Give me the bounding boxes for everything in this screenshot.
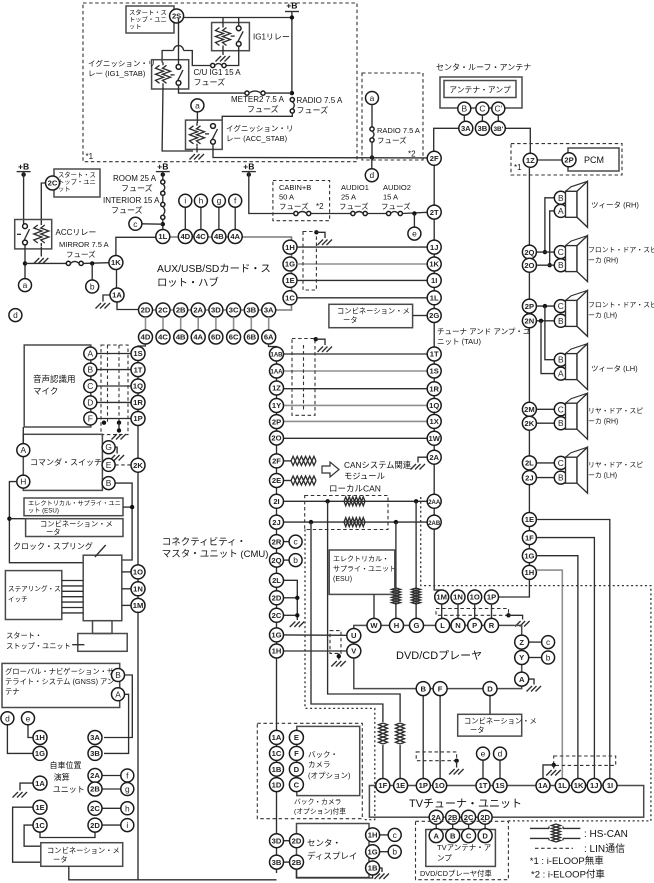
wire 2D-i — [102, 824, 121, 826]
hub bottom pin 3A — [262, 303, 276, 317]
svg-text:2P: 2P — [272, 417, 281, 426]
svg-text:1L: 1L — [158, 232, 167, 241]
svg-text:e: e — [412, 229, 417, 239]
speaker tweeter RH — [566, 181, 588, 227]
svg-text:アンテナ・アンプ: アンテナ・アンプ — [449, 86, 511, 95]
speaker pin B — [554, 314, 567, 327]
speaker rear door LH — [566, 447, 588, 493]
wire 2J to rear LH B — [536, 477, 554, 479]
mic pin A — [84, 347, 97, 360]
svg-text:CABIN+B: CABIN+B — [279, 183, 311, 192]
electrical supply unit ESU box (mid) — [329, 550, 395, 594]
svg-text:演算: 演算 — [54, 772, 70, 782]
svg-text:F: F — [88, 414, 93, 424]
svg-text:2F: 2F — [272, 457, 281, 466]
speaker pin C — [554, 300, 567, 313]
svg-text:1Q: 1Q — [133, 382, 143, 391]
junction — [454, 759, 458, 763]
wire IG1 coil to ground — [222, 49, 224, 56]
svg-text:ット: ット — [58, 186, 71, 193]
svg-text:3A: 3A — [90, 733, 100, 742]
camera harness pin 1B — [270, 762, 284, 776]
wire d to 1G — [7, 725, 33, 754]
svg-text:b: b — [546, 653, 551, 663]
antenna amp pin C' — [492, 102, 505, 115]
TAU right edge wire — [528, 167, 530, 579]
CMU pin 2E — [270, 474, 284, 488]
link node d (bottom) — [1, 712, 14, 725]
hub right pin 1E — [283, 273, 297, 287]
fuse AUDIO1 25 A — [351, 211, 368, 215]
ground right of DVD A — [527, 686, 542, 692]
svg-text:1B: 1B — [368, 864, 378, 873]
wire 2B to antenna amp — [452, 824, 454, 828]
svg-text:1P: 1P — [487, 593, 496, 602]
link node a (radio fuse) — [366, 92, 379, 105]
wire 3D-2D — [284, 840, 290, 842]
junction — [414, 499, 418, 503]
svg-text:C: C — [466, 831, 472, 840]
wire 2B-g — [102, 788, 121, 790]
hub top pin 4D — [178, 230, 192, 244]
TAU pin 1W — [427, 431, 441, 445]
svg-text:4B: 4B — [214, 232, 224, 241]
svg-text:マスタ・ユニット (CMU): マスタ・ユニット (CMU) — [162, 549, 269, 560]
junction — [370, 155, 374, 159]
wire 1Z-2P — [537, 159, 562, 161]
connector pin 4B (harness) — [174, 330, 188, 344]
svg-text:2A: 2A — [431, 813, 441, 822]
svg-text:ータ: ータ — [46, 528, 61, 537]
svg-text:1K: 1K — [111, 258, 121, 267]
mic pin F — [84, 412, 97, 425]
speaker pin B — [554, 353, 567, 366]
GNSS pin B — [112, 669, 125, 682]
DVD top pin H — [390, 618, 404, 632]
svg-text:2A: 2A — [193, 306, 203, 315]
svg-text:1G: 1G — [285, 260, 295, 269]
wire A up — [22, 427, 24, 444]
svg-text:2S: 2S — [172, 12, 181, 21]
svg-text:A: A — [21, 445, 27, 455]
svg-text:コマンダ・スイッチ: コマンダ・スイッチ — [30, 457, 102, 467]
svg-text:TVアンテナ・ア: TVアンテナ・ア — [437, 843, 491, 852]
junction — [90, 261, 94, 265]
svg-text:4A: 4A — [230, 232, 240, 241]
svg-text:d: d — [369, 170, 374, 180]
DVD pin B — [416, 682, 430, 696]
svg-text:ニット (TAU): ニット (TAU) — [437, 337, 482, 346]
svg-text:ータ: ータ — [470, 726, 485, 735]
display pin 1H — [366, 828, 380, 842]
svg-text:エレクトリカル・: エレクトリカル・ — [333, 555, 389, 563]
svg-text:*2: *2 — [316, 202, 324, 211]
dashed option box back camera — [257, 723, 362, 818]
svg-text:A: A — [433, 831, 439, 840]
TAU right pin 1H — [522, 565, 536, 579]
svg-text:フューズ: フューズ — [121, 183, 153, 193]
TV tuner pin 1P — [416, 779, 430, 793]
CMU pin 1G — [270, 628, 284, 642]
wire TAU 2A to ground — [418, 457, 427, 462]
svg-text:イグニッション・リ: イグニッション・リ — [226, 123, 293, 133]
legend LIN dashed — [535, 847, 573, 849]
wire G to ground — [115, 447, 117, 453]
TAU right pin 2L — [522, 456, 536, 470]
LIN dotted line (camera option) — [305, 530, 375, 820]
wire clock spring to 1M — [122, 604, 131, 606]
DVD pin Z — [515, 635, 529, 649]
svg-text:B: B — [558, 260, 564, 270]
svg-text:*1 : i-ELOOP無車: *1 : i-ELOOP無車 — [530, 855, 604, 867]
clock spring connector — [83, 555, 122, 621]
TV tuner pin 2C — [462, 810, 476, 824]
svg-text:ロット・ハブ: ロット・ハブ — [157, 276, 219, 289]
svg-text:1M: 1M — [133, 601, 144, 610]
wire shield to ground — [316, 339, 325, 345]
wire 2C to ACC relay coil — [41, 183, 45, 222]
svg-text:b: b — [90, 282, 95, 292]
wire 1C to meter box — [24, 825, 41, 846]
svg-text:1F: 1F — [525, 533, 534, 542]
wire CMU 1AA-1S to TAU — [284, 370, 428, 372]
commander pin B — [102, 477, 115, 490]
svg-text:4D: 4D — [141, 333, 151, 342]
connector pin 2P — [562, 153, 576, 167]
fuse ROOM 25 A — [161, 180, 165, 195]
svg-text:1A: 1A — [112, 291, 122, 300]
svg-text:コネクティビティ・: コネクティビティ・ — [162, 537, 246, 548]
wire tweeter RH A — [550, 211, 555, 265]
wire C'-3B' — [497, 115, 499, 121]
svg-text:2Q: 2Q — [524, 248, 534, 257]
wire g to hub — [218, 207, 220, 229]
junction — [543, 304, 547, 308]
svg-text:(オプション)付車: (オプション)付車 — [294, 807, 346, 816]
CMU pin 2K — [131, 458, 145, 472]
wire +B down — [162, 172, 164, 180]
wire 2M to rear RH C — [536, 408, 554, 410]
svg-text:フューズ: フューズ — [247, 104, 279, 114]
svg-text:B: B — [88, 365, 94, 375]
CMU pin 1R — [131, 395, 145, 409]
coil of ACC relay — [34, 222, 49, 246]
wire 2S to +B bus — [184, 17, 292, 19]
svg-text:レー (IG1_STAB): レー (IG1_STAB) — [88, 69, 146, 78]
wire 2O to front RH B — [536, 264, 554, 266]
wire mic F — [97, 418, 131, 420]
svg-text:1T: 1T — [134, 365, 143, 374]
svg-text:R: R — [489, 621, 495, 630]
ground right of hub shield — [318, 240, 333, 246]
svg-text:マイク: マイク — [33, 386, 58, 396]
camera harness pin 1C — [270, 746, 284, 760]
svg-text:2C: 2C — [90, 804, 100, 813]
svg-text:2T: 2T — [430, 208, 439, 217]
wire 6B mating stub — [250, 317, 252, 330]
svg-text:3B: 3B — [272, 858, 282, 867]
wire CMU 1H to DVD V — [284, 650, 347, 652]
speaker tweeter LH — [566, 344, 588, 390]
svg-text:自車位置: 自車位置 — [50, 760, 82, 770]
ground under LIN box — [449, 769, 464, 775]
dashed option box DVD/CD player fitted — [416, 821, 509, 879]
wire 1K to 1A — [116, 270, 118, 289]
wire to AUDIO2 fuse — [367, 213, 386, 215]
camera harness pin 1A — [270, 730, 284, 744]
svg-text:: LIN通信: : LIN通信 — [584, 843, 625, 855]
TV tuner unit box — [369, 786, 643, 818]
dashed shield box (mic wires) — [101, 345, 128, 435]
svg-text:ーカ (RH): ーカ (RH) — [588, 257, 618, 265]
svg-text:3A: 3A — [461, 124, 471, 133]
svg-text:2AA: 2AA — [428, 500, 441, 506]
svg-text:METER2 7.5 A: METER2 7.5 A — [231, 95, 285, 104]
fuse MIRROR 7.5 A — [66, 261, 83, 265]
svg-text:25 A: 25 A — [341, 193, 356, 202]
svg-text:2D: 2D — [272, 594, 282, 603]
link node g (top) — [212, 194, 225, 207]
svg-text:AUX/USB/SDカード・ス: AUX/USB/SDカード・ス — [157, 263, 271, 275]
start-stop unit box (left) — [54, 169, 100, 197]
svg-text:1W: 1W — [429, 434, 441, 443]
svg-text:d: d — [13, 310, 18, 320]
svg-text:サプライ・ユニット: サプライ・ユニット — [333, 565, 396, 573]
wire IG1_STAB switch up to bus — [178, 18, 180, 65]
connector pin 1A — [110, 288, 124, 302]
svg-text:2A: 2A — [90, 771, 100, 780]
wire 2Q-b — [284, 559, 290, 561]
svg-text:*2: *2 — [408, 150, 416, 159]
+B feed middle — [156, 162, 170, 177]
svg-text:2F: 2F — [430, 154, 439, 163]
svg-text:ACCリレー: ACCリレー — [56, 228, 97, 237]
svg-text:イッチ: イッチ — [8, 596, 28, 604]
svg-text:G: G — [414, 621, 420, 630]
wire 2K to rear RH B — [536, 422, 554, 424]
svg-text:フューズ: フューズ — [66, 249, 96, 259]
TAU right pin 1F — [522, 531, 536, 545]
fuse CABIN+B 50 A — [294, 211, 311, 215]
wire CMU 1Z-1R to TAU — [284, 388, 428, 390]
back camera pin E — [289, 730, 303, 744]
link node c — [129, 217, 142, 230]
svg-text:AUDIO1: AUDIO1 — [341, 183, 369, 192]
svg-text:3C: 3C — [229, 306, 239, 315]
connector pin 4C (harness) — [156, 330, 170, 344]
svg-text:H: H — [20, 477, 26, 487]
back camera box — [297, 726, 360, 795]
TAU right pin 1G — [522, 549, 536, 563]
TAU right pin 1E — [522, 513, 536, 527]
svg-text:RADIO 7.5 A: RADIO 7.5 A — [297, 96, 343, 105]
wire shield to ground — [316, 232, 325, 238]
svg-text:1A: 1A — [35, 779, 45, 788]
wire IG1_STAB coil down — [162, 86, 193, 151]
svg-text:6A: 6A — [264, 333, 274, 342]
TAU right pin 2P — [522, 299, 536, 313]
dashed option box *1 PCM — [511, 144, 622, 175]
position unit pin 1G — [33, 746, 47, 760]
link node c (CMU 2R) — [289, 535, 302, 548]
wire 2E to CAN termination — [284, 480, 292, 482]
svg-text:ストップ・ユニット: ストップ・ユニット — [6, 642, 71, 651]
DVD top pin R — [485, 618, 499, 632]
antenna amp unit box — [440, 77, 522, 108]
svg-text:1T: 1T — [479, 781, 488, 790]
wire node c to junction — [142, 223, 163, 225]
svg-text:W: W — [370, 621, 378, 630]
svg-text:L: L — [440, 621, 445, 630]
harness pin 3B — [270, 855, 284, 869]
+B feed right — [242, 162, 256, 177]
position unit pin 1C — [33, 818, 47, 832]
svg-text:A: A — [115, 689, 121, 699]
wire f to hub — [234, 207, 236, 229]
relay IG1_STAB (ignition relay) — [152, 60, 189, 89]
ground right of display 1B — [375, 874, 390, 880]
TAU pin 1I — [427, 273, 441, 287]
center display box — [297, 824, 370, 878]
TAU right pin 2Q — [522, 245, 536, 259]
fuse INTERIOR 15 A — [161, 202, 165, 219]
wire meter to bottom bus — [69, 866, 138, 880]
DVD pin F — [433, 682, 447, 696]
TAU bottom pin 1O — [468, 590, 482, 604]
svg-text:2P: 2P — [525, 302, 534, 311]
wire ESU to DVD W — [373, 594, 375, 618]
hub bottom pin 3D — [209, 303, 223, 317]
svg-text:P: P — [472, 621, 477, 630]
wire 4A mating stub — [197, 317, 199, 330]
svg-text:4C: 4C — [158, 333, 168, 342]
wire crossing hop — [174, 46, 184, 51]
ground left of hub 1A — [96, 303, 111, 309]
svg-text:C: C — [558, 247, 564, 257]
junction — [314, 337, 318, 341]
svg-text:1H: 1H — [35, 733, 45, 742]
commander switch box — [23, 434, 102, 490]
display pin 1G — [366, 845, 380, 859]
svg-text:1F: 1F — [378, 781, 387, 790]
wire mic D — [97, 401, 131, 403]
TAU right pin 2O — [522, 258, 536, 272]
wire clock spring to 1O — [122, 571, 131, 573]
wire C-3B — [481, 115, 483, 121]
TV tuner pin 1O — [433, 779, 447, 793]
svg-text:ツィータ (LH): ツィータ (LH) — [591, 364, 638, 373]
svg-text:2B: 2B — [90, 785, 100, 794]
dashed LIN box over 1M-1P — [436, 609, 509, 616]
svg-text:1E: 1E — [285, 276, 294, 285]
twisted pair to DVD (H) — [392, 588, 401, 604]
wire to AUDIO1 fuse — [311, 213, 351, 215]
svg-text:PCM: PCM — [584, 155, 604, 165]
junction — [290, 15, 294, 19]
wire CMU 2J to TAU 2AB — [284, 521, 428, 523]
svg-text:INTERIOR 15 A: INTERIOR 15 A — [103, 196, 160, 205]
svg-text:1G: 1G — [271, 631, 281, 640]
svg-text:b: b — [392, 847, 397, 857]
svg-text:2I: 2I — [273, 497, 279, 506]
commander pin E — [102, 458, 115, 471]
link node b (DVD) — [542, 651, 555, 664]
wire 2C-h — [102, 807, 121, 809]
TV tuner pin 1K — [572, 779, 586, 793]
svg-text:センタ・: センタ・ — [307, 838, 341, 848]
svg-text:6B: 6B — [246, 333, 256, 342]
wire +B to ACC relay switch — [23, 172, 25, 224]
fuse RADIO 7.5 A (option) — [370, 127, 374, 142]
svg-text:2N: 2N — [525, 317, 535, 326]
svg-text:4A: 4A — [193, 333, 203, 342]
wire TAU 1E to TV 1I — [536, 520, 609, 779]
svg-text:A: A — [558, 369, 564, 379]
TAU right pin 2N — [522, 314, 536, 328]
svg-text:3B: 3B — [90, 749, 100, 758]
svg-text:1I: 1I — [607, 781, 613, 790]
svg-text:B: B — [115, 670, 121, 680]
svg-text:ーカ (RH): ーカ (RH) — [588, 418, 618, 426]
TV tuner pin 1E — [394, 779, 408, 793]
svg-text:バック・カメラ: バック・カメラ — [294, 798, 341, 806]
link node d (TV) — [494, 747, 507, 760]
CAN branch to TV 1E — [328, 501, 401, 722]
wire tweeter LH B — [545, 306, 554, 360]
wire fuse to hop — [184, 51, 211, 66]
wire H branch to meter box — [9, 518, 25, 520]
wire DVD D to meter — [489, 696, 491, 715]
CMU right edge wire — [276, 347, 278, 873]
svg-text:フューズ: フューズ — [279, 201, 309, 211]
commander pin A — [17, 444, 30, 457]
svg-text:2K: 2K — [133, 461, 143, 470]
svg-text:(オプション): (オプション) — [308, 771, 351, 780]
wire A to ground — [529, 679, 534, 684]
wire CMU 2O-1W to TAU — [284, 437, 428, 439]
wire IG1 coil to bus — [222, 18, 224, 25]
hub top pin 4A — [228, 230, 242, 244]
TV tuner pin 1S — [493, 779, 507, 793]
DVD top pin W — [367, 618, 381, 632]
svg-text:ーカ (LH): ーカ (LH) — [588, 312, 617, 320]
wire a to ACC coil — [196, 112, 198, 123]
svg-text:a: a — [23, 280, 28, 290]
svg-text:1E: 1E — [35, 803, 44, 812]
DVD pin D — [483, 682, 497, 696]
svg-text:1X: 1X — [430, 417, 439, 426]
dashed option box CABIN+B fuse — [273, 181, 330, 221]
CAN branch to TV 1F — [311, 522, 383, 722]
svg-text:1AA: 1AA — [270, 370, 283, 376]
link node e (TV) — [477, 747, 490, 760]
svg-text:2D: 2D — [141, 306, 151, 315]
wire 6D mating stub — [215, 317, 217, 330]
svg-text:フューズ: フューズ — [111, 205, 143, 215]
svg-text:グローバル・ナビゲーション・サ: グローバル・ナビゲーション・サ — [5, 667, 114, 676]
svg-text:2Q: 2Q — [271, 556, 281, 565]
DVD top pin N — [451, 618, 465, 632]
svg-text:1H: 1H — [272, 647, 282, 656]
TAU pin 1J — [427, 240, 441, 254]
GNSS pin A — [112, 688, 125, 701]
speaker pin A — [554, 204, 567, 217]
speaker pin A — [554, 367, 567, 380]
wire hop to IG1_STAB coil — [162, 51, 173, 63]
svg-text:1H: 1H — [525, 568, 535, 577]
CMU pin 1AA — [270, 364, 284, 378]
svg-text:6C: 6C — [229, 333, 239, 342]
